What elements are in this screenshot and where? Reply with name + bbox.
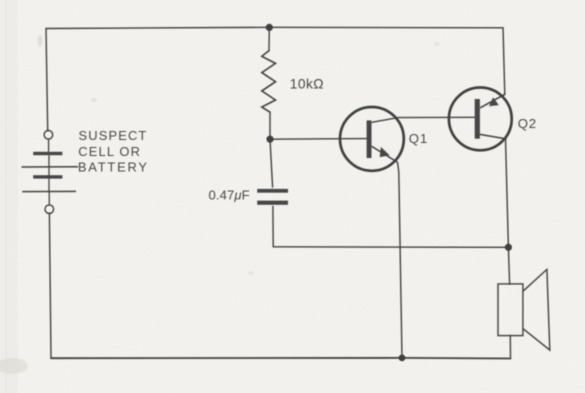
wire bottom rail xyxy=(51,357,511,360)
resistor R1 10k zigzag xyxy=(262,51,276,113)
svg-text:SUSPECT: SUSPECT xyxy=(79,128,148,143)
wire Q1 emitter vertical xyxy=(398,163,402,358)
wire resistor bottom lead xyxy=(269,112,271,139)
wire Q2 collector vertical xyxy=(506,139,509,248)
capacitor C1 0.47uF xyxy=(257,189,288,205)
wire resistor top lead xyxy=(268,27,270,50)
node: right junction xyxy=(505,244,512,251)
svg-text:Q2: Q2 xyxy=(518,116,537,131)
label: SUSPECT CELL OR BATTERY xyxy=(78,128,149,175)
wire battery - terminal to bottom rail xyxy=(49,214,51,359)
wire middle horizontal (cap corner to right junction) xyxy=(273,246,508,249)
speaker LS1 xyxy=(498,269,550,350)
svg-text:CELL OR: CELL OR xyxy=(78,144,141,159)
svg-text:BATTERY: BATTERY xyxy=(78,160,149,175)
wire top rail xyxy=(46,27,503,28)
battery B1 (suspect cell) xyxy=(22,131,79,214)
wire Q1 collector to Q2 base xyxy=(372,117,475,122)
wire right vertical (top rail to Q2 emitter) xyxy=(503,28,505,94)
node: bottom rail junction xyxy=(399,355,406,362)
svg-text:0.47μF: 0.47μF xyxy=(209,187,250,202)
svg-text:Q1: Q1 xyxy=(409,131,428,146)
wire Q1 base xyxy=(270,138,367,141)
wire capacitor top lead xyxy=(270,139,273,187)
wire left vertical (top rail to battery + terminal) xyxy=(46,29,48,131)
svg-text:10kΩ: 10kΩ xyxy=(290,76,324,91)
wire capacitor bottom lead to corner xyxy=(272,206,274,247)
transistor Q1 xyxy=(340,107,404,171)
node: resistor/base/cap junction xyxy=(266,136,273,143)
wire right junction to speaker xyxy=(508,247,509,284)
wire speaker bottom lead xyxy=(509,336,511,359)
transistor Q2 xyxy=(449,88,512,151)
node: top junction xyxy=(266,24,273,31)
